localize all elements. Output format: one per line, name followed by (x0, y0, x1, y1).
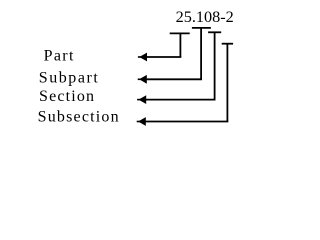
wire: Part horizontal to arrow (146, 56, 181, 58)
arrowhead: Subsection pointer (137, 121, 140, 123)
svg-text:Part: Part (44, 48, 74, 65)
wire: Subsection bracket cap under "-2" (222, 43, 233, 45)
arrowhead: Part pointer (138, 56, 141, 58)
wire: Subpart vertical drop (200, 28, 202, 79)
wire: Subsection vertical drop (226, 44, 228, 122)
arrowhead: Subpart pointer (138, 78, 141, 80)
wire: Subsection horizontal to arrow (145, 121, 229, 123)
wire: Part bracket cap under "25" (170, 32, 190, 34)
wire: Subpart bracket cap under "1" (192, 27, 211, 29)
svg-text:Subsection: Subsection (38, 109, 119, 126)
wire: Part vertical drop (179, 33, 181, 57)
wire: Section horizontal to arrow (145, 99, 215, 101)
svg-text:25.108-2: 25.108-2 (176, 9, 234, 26)
arrowhead: Section pointer (137, 99, 140, 101)
wire: Section vertical drop (214, 32, 216, 99)
wire: Subpart horizontal to arrow (146, 78, 202, 80)
svg-text:Section: Section (39, 88, 94, 105)
wire: Section bracket cap under "08" (208, 31, 221, 33)
